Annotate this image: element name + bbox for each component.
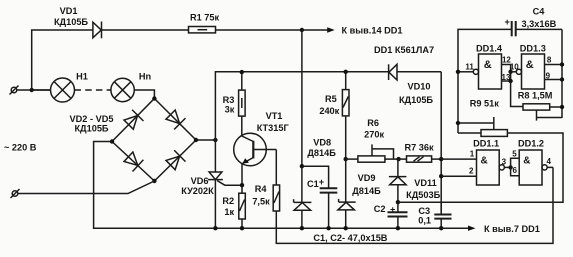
svg-text:9: 9 — [546, 72, 551, 81]
svg-text:VD2 - VD5: VD2 - VD5 — [70, 114, 114, 124]
svg-text:2: 2 — [469, 167, 474, 176]
svg-text:5: 5 — [512, 150, 517, 159]
wire pin 8 — [545, 64, 563, 66]
svg-text:Д814Б: Д814Б — [307, 148, 336, 158]
wire tie pins 5-6 — [511, 158, 520, 176]
resistor R2 — [239, 185, 246, 228]
svg-text:8: 8 — [547, 56, 552, 65]
node bridge left junction — [110, 139, 114, 143]
svg-text:6: 6 — [512, 166, 517, 175]
svg-text:VD8: VD8 — [313, 137, 331, 147]
svg-text:R9 51к: R9 51к — [470, 99, 500, 109]
node C3 bottom junction — [439, 226, 443, 230]
capacitor C2 — [388, 202, 408, 228]
wire bridge left to left down rail — [94, 142, 442, 229]
wire VCC vertical (node B down to zener node) — [301, 30, 303, 166]
transistor VT1 — [234, 116, 277, 185]
svg-text:R2: R2 — [222, 196, 234, 206]
svg-text:КД105Б: КД105Б — [74, 123, 108, 133]
node emitter junction — [240, 183, 244, 187]
svg-text:R6: R6 — [367, 118, 379, 128]
svg-text:КД105Б: КД105Б — [399, 95, 433, 105]
node pin8 junction — [560, 62, 564, 66]
svg-text:DD1 К561ЛА7: DD1 К561ЛА7 — [374, 45, 434, 55]
node C1 bottom junction — [326, 226, 330, 230]
node C2 bottom junction — [396, 226, 400, 230]
capacitor C4 — [512, 21, 562, 36]
svg-text:R7 36к: R7 36к — [405, 143, 435, 153]
node R8 right junction — [560, 105, 564, 109]
node VD11 bottom junction — [396, 200, 400, 204]
svg-text:270к: 270к — [364, 130, 384, 140]
node VD9 bottom junction — [344, 226, 348, 230]
wire right rail down — [561, 29, 563, 118]
thyristor VD6 — [208, 140, 242, 228]
capacitor C3 — [434, 215, 451, 229]
diode VD2 (upper-left arm) — [123, 110, 144, 130]
svg-text:VD11: VD11 — [414, 178, 436, 188]
wire pin 12 — [502, 65, 524, 107]
wire pin 2 — [441, 175, 476, 177]
diode VD1 — [93, 22, 102, 39]
resistor R9 (with tap) — [458, 117, 507, 136]
arrow to pin 7 DD1 — [441, 226, 475, 231]
node B junction — [300, 28, 304, 32]
svg-text:&: & — [523, 156, 530, 167]
lamp H1 — [51, 78, 75, 102]
node R5 top junction — [344, 70, 348, 74]
capacitor C3 gap cover (vertical into plates) — [440, 202, 442, 214]
lamp Hn — [111, 78, 134, 101]
node pin11 junction — [456, 70, 460, 74]
terminal X2 (lower mains input) — [11, 189, 20, 198]
svg-text:C2: C2 — [374, 204, 386, 214]
resistor R1 — [189, 27, 216, 33]
node tie 3-5-6 junction — [508, 165, 512, 169]
gate DD1.1 — [477, 150, 511, 185]
svg-text:3,3х16В: 3,3х16В — [522, 19, 557, 29]
gate DD1.3 — [511, 54, 545, 89]
svg-text:0,1: 0,1 — [418, 216, 431, 226]
resistor R5 — [342, 72, 349, 159]
resistor R4 — [273, 150, 553, 244]
wire node B to arrow pin14 — [302, 29, 328, 31]
svg-text:VD1: VD1 — [60, 6, 78, 16]
resistor R8 (with tap) — [523, 104, 562, 121]
wire terminal X2 to bridge bottom — [18, 181, 155, 194]
svg-text:Hn: Hn — [139, 71, 152, 81]
svg-text:DD1.2: DD1.2 — [518, 138, 544, 148]
terminal X1 (upper mains input) — [10, 86, 19, 95]
svg-text:&: & — [481, 156, 488, 167]
node pin2 junction — [439, 174, 443, 178]
wire terminal X1 to node A — [17, 89, 51, 91]
node R3 top junction — [240, 70, 244, 74]
svg-text:C1: C1 — [307, 179, 319, 189]
wire Hn to bridge top — [134, 90, 154, 99]
node R9 wiper junction — [456, 121, 460, 125]
node VD6 cathode-bus junction — [213, 226, 217, 230]
node R6-R7 junction — [396, 157, 400, 161]
svg-text:К выв.7 DD1: К выв.7 DD1 — [484, 224, 540, 234]
wire bridge right to node C — [196, 139, 215, 141]
svg-text:11: 11 — [465, 62, 474, 71]
svg-text:7,5к: 7,5к — [252, 196, 270, 206]
gate DD1.2 — [519, 150, 553, 185]
svg-text:+: + — [319, 177, 324, 187]
wire R1 to node B — [216, 29, 302, 31]
wire DD1 input vertical — [440, 72, 442, 212]
svg-text:DD1.4: DD1.4 — [476, 44, 503, 54]
diode VD3 (upper-right arm) — [165, 109, 186, 130]
wire VD1 to R1 — [102, 29, 189, 31]
svg-text:10: 10 — [510, 62, 519, 71]
wire pin 13 — [502, 80, 511, 82]
svg-text:+: + — [390, 204, 395, 214]
svg-text:C3: C3 — [418, 206, 430, 216]
svg-text:VT1: VT1 — [266, 111, 283, 121]
svg-text:VD9: VD9 — [358, 173, 376, 183]
svg-text:Н1: Н1 — [76, 71, 88, 81]
svg-text:VD10: VD10 — [408, 81, 431, 91]
node zener top junction — [300, 164, 304, 168]
node pin1 junction — [439, 157, 443, 161]
svg-text:&: & — [526, 59, 534, 71]
wire node A to lamp H1 — [32, 89, 51, 91]
svg-text:R5: R5 — [325, 94, 337, 104]
svg-text:R4: R4 — [255, 184, 268, 194]
svg-text:VD6: VD6 — [191, 176, 209, 186]
svg-text:C4: C4 — [533, 6, 546, 16]
gate DD1.4 — [458, 54, 502, 89]
svg-text:R8 1,5М: R8 1,5М — [518, 90, 553, 100]
dashed wire H1 to Hn — [75, 89, 111, 91]
capacitor C1 — [302, 166, 337, 228]
svg-text:240к: 240к — [319, 106, 339, 116]
diode VD10 — [389, 64, 442, 80]
resistor R3 — [239, 72, 246, 116]
svg-text:1к: 1к — [224, 207, 234, 217]
svg-text:&: & — [484, 59, 492, 71]
wire pin 1 — [441, 158, 476, 160]
node bridge right junction — [194, 138, 198, 142]
node C junction (thyristor anode node) — [213, 138, 217, 142]
wire node C up and across to VD10 — [215, 72, 388, 140]
svg-text:1: 1 — [470, 150, 475, 159]
diode bridge outline VD2-VD5 — [112, 99, 196, 182]
node VD8 bottom junction — [300, 226, 304, 230]
svg-text:КТ315Г: КТ315Г — [257, 123, 290, 133]
svg-text:КУ202К: КУ202К — [181, 186, 214, 196]
zener VD8 — [294, 166, 312, 228]
zener VD9 — [338, 159, 356, 228]
node A junction — [30, 88, 34, 92]
node tie 10-12 junction — [508, 70, 512, 74]
svg-text:DD1.1: DD1.1 — [473, 138, 499, 148]
svg-text:К выв.14 DD1: К выв.14 DD1 — [342, 25, 403, 35]
svg-text:3к: 3к — [225, 105, 235, 115]
svg-text:C1, C2- 47,0х15В: C1, C2- 47,0х15В — [313, 233, 387, 243]
svg-text:+: + — [505, 17, 510, 27]
diode VD4 (lower-left arm) — [123, 151, 143, 172]
svg-text:DD1.3: DD1.3 — [520, 44, 546, 54]
wire pin 9 — [545, 79, 563, 81]
svg-text:3: 3 — [502, 158, 507, 167]
diode VD5 (lower-right arm) — [165, 150, 185, 171]
resistor R7 — [399, 156, 442, 162]
node bridge top junction — [152, 96, 156, 100]
svg-text:~ 220 В: ~ 220 В — [4, 142, 37, 152]
arrow to pin 14 DD1 — [327, 27, 335, 32]
resistor R6 (with tap) — [346, 144, 399, 162]
wire R9 return line — [398, 133, 563, 202]
node pin9 junction — [560, 77, 564, 81]
node bridge bottom junction — [152, 179, 156, 183]
svg-text:КД105Б: КД105Б — [54, 17, 88, 27]
node R6 left junction — [344, 157, 348, 161]
node R2 bottom junction — [240, 226, 244, 230]
svg-text:R1 75к: R1 75к — [190, 13, 220, 23]
node tie 13 junction — [508, 79, 512, 83]
svg-text:4: 4 — [546, 157, 551, 166]
svg-text:Д814Б: Д814Б — [352, 186, 381, 196]
wire top-right rail with C4 — [458, 29, 512, 133]
svg-text:R3: R3 — [223, 95, 235, 105]
svg-text:КД503Б: КД503Б — [406, 190, 440, 200]
wire node A up and top rail to VD1 — [32, 30, 93, 90]
diode VD11 — [389, 159, 407, 202]
